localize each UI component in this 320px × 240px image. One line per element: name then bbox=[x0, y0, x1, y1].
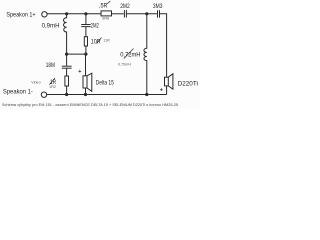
wire bbox=[85, 27, 87, 37]
node bottom coil bbox=[145, 93, 148, 96]
speaker D220Ti tweeter bbox=[165, 77, 169, 86]
capacitor 2M2 shunt bbox=[81, 24, 90, 26]
speaker Delta 15 bbox=[83, 76, 87, 88]
svg-text:18M: 18M bbox=[46, 63, 55, 69]
resistor 5R bbox=[101, 11, 112, 16]
wire bbox=[85, 46, 87, 54]
connector Speakon 1- bbox=[41, 92, 46, 97]
svg-text:+: + bbox=[78, 69, 81, 75]
wire bbox=[66, 86, 68, 95]
resistor 1R bbox=[65, 76, 69, 86]
wire shunt branch top bbox=[85, 14, 87, 24]
node mid right bbox=[84, 53, 87, 56]
node bottom 1R bbox=[65, 93, 68, 96]
svg-text:+: + bbox=[160, 87, 163, 93]
capacitor 3M3 bbox=[157, 10, 159, 17]
connector Speakon 1+ bbox=[42, 12, 47, 17]
svg-text:6R8: 6R8 bbox=[102, 17, 109, 21]
svg-text:,5R: ,5R bbox=[99, 4, 108, 10]
wire tweeter to bottom bbox=[166, 86, 168, 95]
svg-text:Schéma výhybky pro EM 151 - os: Schéma výhybky pro EM 151 - osazení EMIN… bbox=[2, 102, 179, 107]
svg-text:Delta 15: Delta 15 bbox=[96, 81, 115, 87]
capacitor 2M2 series bbox=[123, 10, 125, 17]
node top A bbox=[65, 12, 68, 15]
wire woofer to bottom bbox=[85, 88, 87, 95]
capacitor 18M bbox=[66, 54, 68, 66]
svg-text:2M2: 2M2 bbox=[91, 24, 100, 30]
wire top rail left bbox=[47, 13, 101, 15]
svg-text:Speakon 1+: Speakon 1+ bbox=[6, 12, 36, 18]
svg-text:0,75mH: 0,75mH bbox=[118, 62, 131, 66]
slash over 10R bbox=[97, 38, 102, 44]
node top C bbox=[145, 12, 148, 15]
svg-text:2M2: 2M2 bbox=[120, 4, 130, 10]
node top B bbox=[84, 12, 87, 15]
svg-text:3M3: 3M3 bbox=[153, 4, 163, 10]
wire bbox=[66, 69, 68, 76]
svg-text:1R2: 1R2 bbox=[49, 85, 56, 89]
wire top right corner down bbox=[160, 14, 167, 77]
node bottom woofer bbox=[84, 93, 87, 96]
svg-text:Speakon 1-: Speakon 1- bbox=[3, 90, 33, 96]
node mid left bbox=[65, 53, 68, 56]
wire top rail mid bbox=[112, 13, 124, 15]
inductor 0,9mH bbox=[64, 14, 67, 54]
svg-text:10R: 10R bbox=[91, 39, 101, 45]
wire mid horizontal bbox=[67, 53, 86, 55]
slash over 0,72mH bbox=[124, 49, 134, 59]
resistor 10R bbox=[84, 37, 87, 46]
wire bottom rail bbox=[47, 94, 167, 96]
slash over 5R bbox=[107, 1, 110, 4]
svg-text:11R: 11R bbox=[103, 39, 110, 43]
wire top rail mid2 bbox=[127, 13, 157, 15]
wire woofer branch bbox=[85, 54, 87, 76]
svg-text:Video: Video bbox=[31, 80, 40, 84]
slash over 1R bbox=[50, 78, 56, 85]
svg-text:0,72mH: 0,72mH bbox=[120, 52, 140, 58]
svg-text:D220Ti: D220Ti bbox=[178, 82, 198, 88]
inductor 0,72mH bbox=[144, 14, 147, 95]
svg-text:0,9mH: 0,9mH bbox=[42, 24, 60, 30]
